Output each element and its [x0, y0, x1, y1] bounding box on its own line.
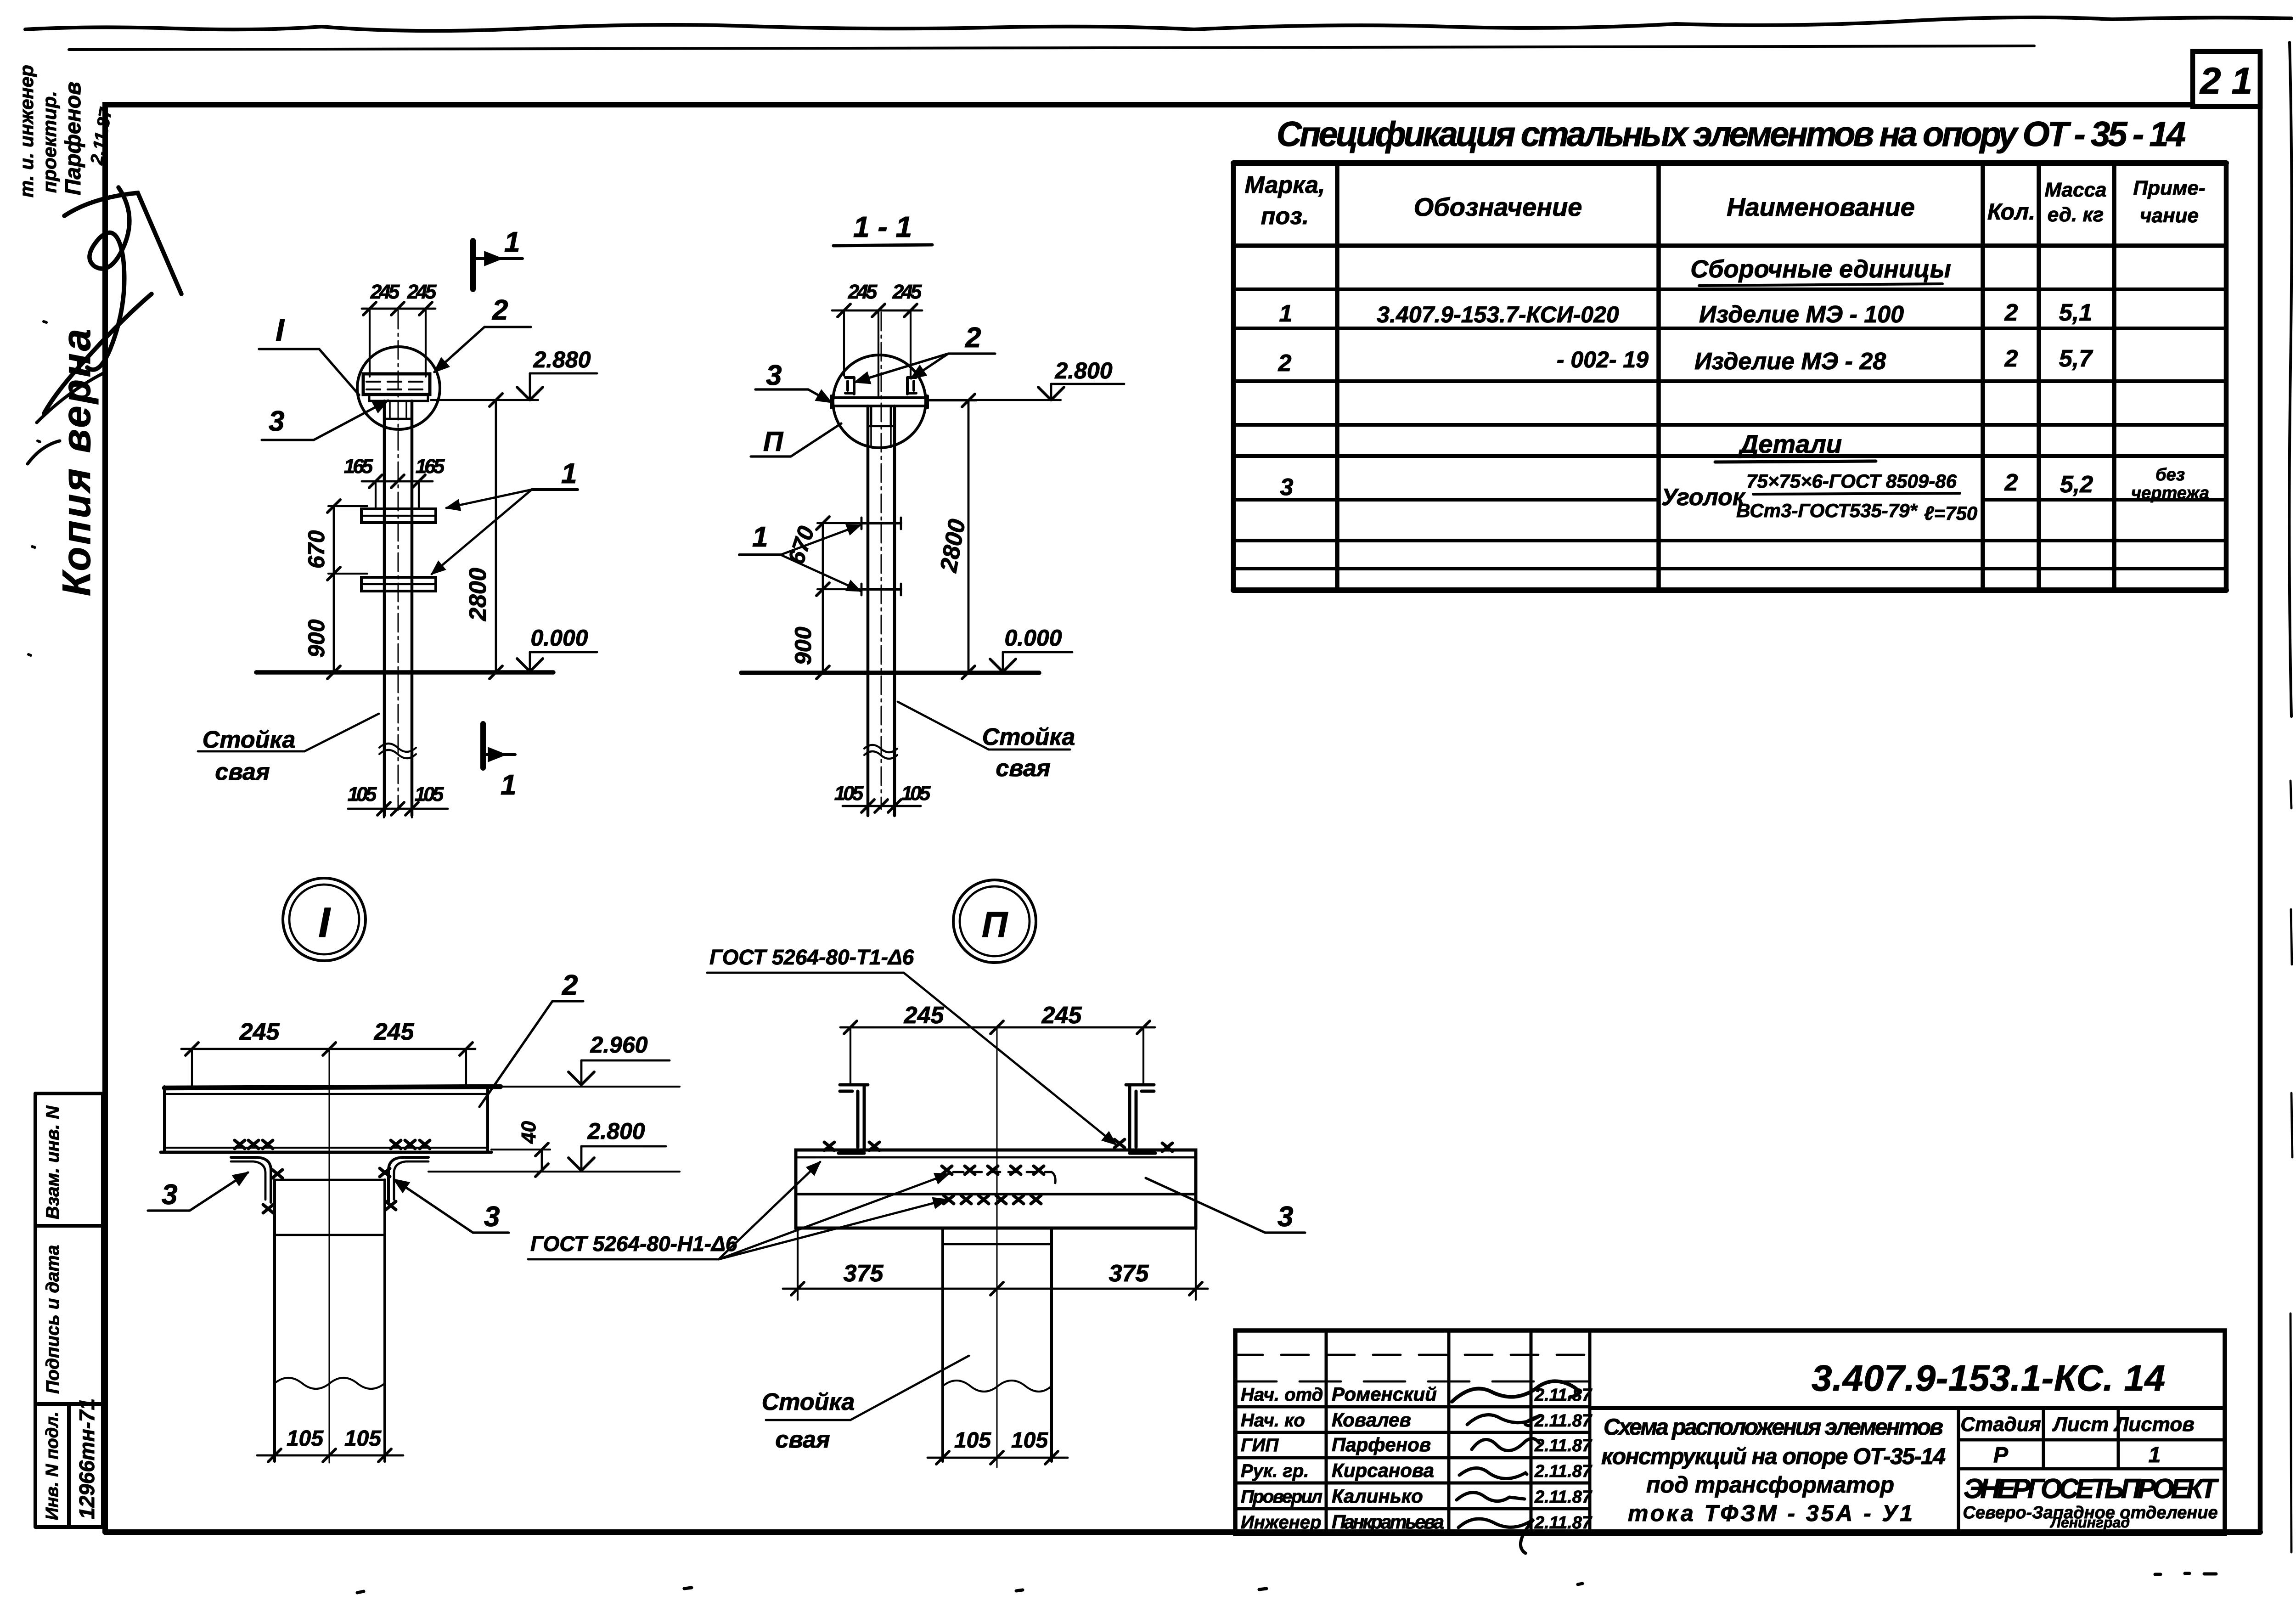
paper inner top line: [69, 46, 2034, 50]
detail II right clip: [1126, 1085, 1155, 1153]
svg-text:165: 165: [344, 455, 373, 478]
svg-text:Стадия: Стадия: [1960, 1413, 2041, 1436]
svg-text:тока ТФЗМ - 35А - У1: тока ТФЗМ - 35А - У1: [1628, 1500, 1913, 1526]
svg-text:ГИП: ГИП: [1241, 1435, 1279, 1455]
svg-text:I: I: [276, 313, 285, 348]
detail II callout circle: [953, 880, 1036, 963]
svg-text:245: 245: [904, 1002, 945, 1029]
svg-text:5,2: 5,2: [2060, 471, 2093, 498]
svg-text:Стойка: Стойка: [982, 724, 1075, 750]
view2 flange mark upper: [861, 522, 901, 524]
svg-text:105: 105: [415, 783, 444, 806]
svg-text:Рук. гр.: Рук. гр.: [1241, 1461, 1309, 1481]
svg-text:ВСт3-ГОСТ535-79*: ВСт3-ГОСТ535-79*: [1736, 500, 1918, 521]
svg-text:Инженер: Инженер: [1241, 1512, 1321, 1533]
svg-text:проектир.: проектир.: [39, 91, 60, 193]
svg-text:40: 40: [518, 1121, 540, 1144]
svg-text:свая: свая: [775, 1426, 830, 1453]
svg-text:без: без: [2155, 465, 2185, 485]
svg-text:Калинько: Калинько: [1332, 1485, 1423, 1507]
detail II column: [943, 1228, 1052, 1461]
view1 dim 2800: [495, 400, 497, 672]
svg-text:245: 245: [1041, 1002, 1082, 1029]
title block verticals: [1326, 1330, 1590, 1534]
svg-text:105: 105: [954, 1428, 991, 1453]
svg-text:5,7: 5,7: [2059, 345, 2093, 372]
svg-text:ГОСТ 5264-80-Н1-Δ6: ГОСТ 5264-80-Н1-Δ6: [530, 1232, 737, 1256]
svg-text:2: 2: [965, 322, 981, 354]
svg-text:Масса: Масса: [2044, 179, 2106, 201]
spec table grid: [1233, 160, 2226, 166]
svg-text:2: 2: [2004, 345, 2018, 372]
margin stamp table: [35, 1093, 103, 1527]
svg-text:2.960: 2.960: [590, 1032, 647, 1058]
margin stray dots: [28, 321, 46, 655]
view2 dim 900: [822, 589, 824, 672]
svg-text:ед. кг: ед. кг: [2048, 203, 2104, 226]
svg-text:105: 105: [344, 1426, 382, 1451]
title block outer: [1235, 1330, 2225, 1534]
view1 section mark top: [470, 241, 476, 289]
view1 pole axis: [398, 310, 399, 810]
view1 section mark bottom: [480, 724, 486, 768]
svg-text:105: 105: [348, 783, 377, 806]
svg-text:2.11.87: 2.11.87: [1534, 1411, 1593, 1431]
svg-text:Нач. отд: Нач. отд: [1241, 1385, 1323, 1405]
svg-text:2: 2: [492, 294, 508, 326]
view1 dim 900: [333, 574, 335, 672]
svg-text:0.000: 0.000: [530, 625, 588, 651]
svg-text:3: 3: [162, 1179, 177, 1211]
detail II clip weld marks: [824, 1142, 834, 1150]
view2 wavy break: [864, 745, 897, 759]
svg-text:12966тн-71: 12966тн-71: [75, 1398, 99, 1519]
svg-text:5,1: 5,1: [2059, 299, 2092, 326]
svg-text:Спецификация стальных элем: Спецификация стальных элементов на опору…: [1277, 115, 2186, 154]
svg-text:конструкций на опоре ОТ-35-14: конструкций на опоре ОТ-35-14: [1601, 1443, 1946, 1469]
svg-text:Марка,: Марка,: [1245, 172, 1325, 198]
detail I callout circle: [283, 878, 366, 961]
svg-text:75×75×6-ГОСТ 8509-86: 75×75×6-ГОСТ 8509-86: [1746, 470, 1957, 492]
svg-text:2.11.87: 2.11.87: [1534, 1386, 1593, 1405]
svg-text:245: 245: [407, 281, 437, 303]
detail II beam: [796, 1150, 1196, 1228]
svg-text:375: 375: [844, 1260, 884, 1287]
detail II weld row 1 dashed: [942, 1166, 952, 1174]
view1 ground line: [256, 670, 553, 675]
svg-text:1: 1: [561, 458, 577, 490]
svg-text:ℓ=750: ℓ=750: [1924, 502, 1977, 524]
svg-text:Изделие МЭ - 28: Изделие МЭ - 28: [1694, 348, 1886, 375]
svg-text:2.800: 2.800: [587, 1118, 645, 1144]
svg-text:Детали: Детали: [1738, 429, 1842, 458]
svg-text:т. и. инженер: т. и. инженер: [16, 65, 37, 197]
svg-text:3: 3: [1280, 474, 1294, 501]
svg-text:Панкратьева: Панкратьева: [1332, 1511, 1444, 1533]
view2 dim 2800: [968, 400, 970, 672]
title block signatures: [1452, 1381, 1579, 1402]
view1 pole: [384, 401, 412, 816]
svg-text:245: 245: [374, 1019, 415, 1045]
svg-text:Кирсанова: Кирсанова: [1332, 1460, 1434, 1481]
svg-text:670: 670: [304, 530, 329, 569]
svg-text:ЭНЕРГОСЕТЬПРОЕКТ: ЭНЕРГОСЕТЬПРОЕКТ: [1964, 1473, 2219, 1504]
detail I weld marks angles: [263, 1205, 273, 1213]
view2 pole: [868, 406, 895, 816]
detail II weld row 2: [944, 1195, 954, 1204]
svg-text:Изделие МЭ - 100: Изделие МЭ - 100: [1699, 301, 1904, 328]
view2 detail circle: [833, 355, 926, 448]
svg-text:2.11.87: 2.11.87: [1534, 1462, 1593, 1481]
svg-text:900: 900: [790, 626, 816, 665]
view2 dim 105 105: [843, 805, 921, 807]
svg-text:105: 105: [1011, 1428, 1048, 1453]
view1 flange plate lower: [361, 577, 436, 591]
svg-text:Р: Р: [1993, 1443, 2009, 1467]
svg-text:2: 2: [562, 969, 578, 1001]
svg-text:Схема расположения элементов: Схема расположения элементов: [1604, 1414, 1943, 1440]
svg-text:Листов: Листов: [2113, 1413, 2195, 1436]
svg-text:3.407.9-153.1-КС. 14: 3.407.9-153.1-КС. 14: [1812, 1358, 2165, 1398]
margin signature flourish: [44, 187, 181, 413]
svg-text:3: 3: [766, 360, 782, 391]
svg-text:2.11.87: 2.11.87: [1534, 1488, 1593, 1507]
svg-text:105: 105: [834, 782, 864, 805]
svg-text:I: I: [318, 899, 331, 946]
detail I weld marks slab bottom: [235, 1140, 245, 1149]
svg-text:ГОСТ 5264-80-Т1-Δ6: ГОСТ 5264-80-Т1-Δ6: [709, 945, 914, 969]
svg-text:Стойка: Стойка: [203, 727, 296, 753]
svg-text:Стойка: Стойка: [762, 1389, 855, 1415]
svg-text:245: 245: [848, 281, 878, 303]
svg-text:Кол.: Кол.: [1987, 199, 2035, 225]
svg-text:П: П: [763, 426, 784, 457]
svg-text:1: 1: [504, 226, 520, 258]
svg-text:2.880: 2.880: [533, 347, 591, 372]
view1 cap top plate: [363, 374, 430, 395]
svg-text:Проверил: Проверил: [1241, 1487, 1322, 1507]
view1 flange plate upper: [361, 509, 436, 523]
svg-text:900: 900: [304, 619, 329, 658]
svg-text:1: 1: [2149, 1443, 2161, 1467]
svg-text:105: 105: [287, 1426, 324, 1451]
svg-text:245: 245: [370, 281, 400, 303]
view1 dim 670: [333, 506, 335, 574]
svg-text:2: 2: [2004, 469, 2018, 496]
view1 detail circle: [357, 347, 440, 429]
view2 ground line: [741, 671, 1039, 675]
svg-text:Уголок: Уголок: [1661, 484, 1746, 511]
detail II column wavy break: [943, 1381, 1052, 1392]
svg-text:Парфенов: Парфенов: [1332, 1434, 1431, 1455]
svg-text:2.11.87: 2.11.87: [1534, 1513, 1593, 1533]
svg-text:1: 1: [1279, 300, 1293, 327]
svg-text:Сборочные единицы: Сборочные единицы: [1690, 255, 1951, 283]
svg-text:1: 1: [752, 521, 768, 553]
svg-text:Обозначение: Обозначение: [1414, 192, 1582, 221]
detail I dim 40: [541, 1150, 543, 1170]
svg-text:1: 1: [501, 769, 516, 801]
torn paper right edge: [2289, 42, 2291, 716]
svg-text:поз.: поз.: [1261, 203, 1309, 230]
svg-text:1 - 1: 1 - 1: [853, 210, 912, 243]
detail I slab: [164, 1087, 501, 1088]
torn paper top edge: [25, 17, 2291, 31]
detail I center axis: [329, 1049, 330, 1463]
detail II center axis: [996, 1027, 998, 1467]
detail I dim 105 105: [257, 1454, 403, 1457]
svg-text:чание: чание: [2140, 204, 2199, 227]
svg-text:245: 245: [892, 281, 922, 303]
svg-text:3: 3: [1277, 1201, 1293, 1233]
svg-text:Лист: Лист: [2052, 1413, 2109, 1436]
svg-text:Копия верна: Копия верна: [55, 327, 99, 596]
svg-text:2: 2: [1278, 350, 1292, 377]
svg-text:3: 3: [269, 406, 284, 437]
view2 right clip: [907, 378, 916, 394]
svg-text:Ленинград: Ленинград: [2050, 1514, 2130, 1531]
svg-text:под трансформатор: под трансформатор: [1646, 1472, 1894, 1498]
svg-text:375: 375: [1109, 1260, 1149, 1287]
svg-text:2.11.87: 2.11.87: [1534, 1436, 1593, 1455]
view2 pole axis: [881, 312, 882, 809]
svg-text:Приме-: Приме-: [2133, 177, 2205, 199]
svg-text:Наименование: Наименование: [1727, 192, 1915, 221]
svg-text:свая: свая: [996, 755, 1050, 782]
view2 cap plate: [831, 398, 928, 406]
svg-text:165: 165: [416, 455, 445, 478]
view2 dim 670: [822, 523, 824, 589]
svg-text:Инв. N подл.: Инв. N подл.: [43, 1412, 62, 1520]
view1 wavy break: [379, 744, 416, 758]
svg-text:Ковалев: Ковалев: [1332, 1409, 1411, 1431]
view1 dim 105 105: [348, 808, 448, 810]
svg-text:Нач. ко: Нач. ко: [1241, 1410, 1305, 1431]
sheet number box: [2193, 51, 2260, 107]
svg-text:3: 3: [484, 1201, 500, 1233]
svg-text:свая: свая: [215, 759, 270, 785]
page bottom stray marks: [357, 1573, 2216, 1593]
svg-text:чертежа: чертежа: [2131, 484, 2209, 503]
svg-text:2800: 2800: [465, 568, 491, 621]
svg-text:Подпись и дата: Подпись и дата: [43, 1245, 63, 1394]
svg-text:Роменский: Роменский: [1332, 1383, 1437, 1405]
svg-text:0.000: 0.000: [1004, 625, 1062, 651]
svg-text:Парфенов: Парфенов: [61, 82, 85, 195]
svg-text:П: П: [982, 904, 1008, 945]
detail I column: [275, 1180, 385, 1461]
view2 flange mark lower: [861, 588, 901, 591]
detail I right angle: [388, 1157, 428, 1202]
view1 cap lower plate: [369, 395, 428, 401]
svg-text:245: 245: [239, 1019, 280, 1045]
svg-text:- 002- 19: - 002- 19: [1557, 347, 1649, 372]
svg-text:2 1: 2 1: [2199, 60, 2252, 102]
svg-text:3.407.9-153.7-КСИ-020: 3.407.9-153.7-КСИ-020: [1377, 302, 1619, 327]
svg-text:Взам. инв. N: Взам. инв. N: [43, 1105, 63, 1219]
svg-text:105: 105: [901, 782, 931, 805]
title block horizontals: [1235, 1354, 1590, 1356]
view2 left clip: [845, 378, 854, 394]
detail II left clip: [838, 1085, 868, 1153]
svg-text:2.800: 2.800: [1054, 358, 1112, 383]
svg-text:2: 2: [2004, 299, 2018, 326]
detail I column wavy break: [275, 1378, 385, 1389]
detail II dim 105 105: [928, 1457, 1068, 1459]
detail I left angle: [231, 1157, 271, 1202]
view2 neck: [871, 406, 891, 426]
